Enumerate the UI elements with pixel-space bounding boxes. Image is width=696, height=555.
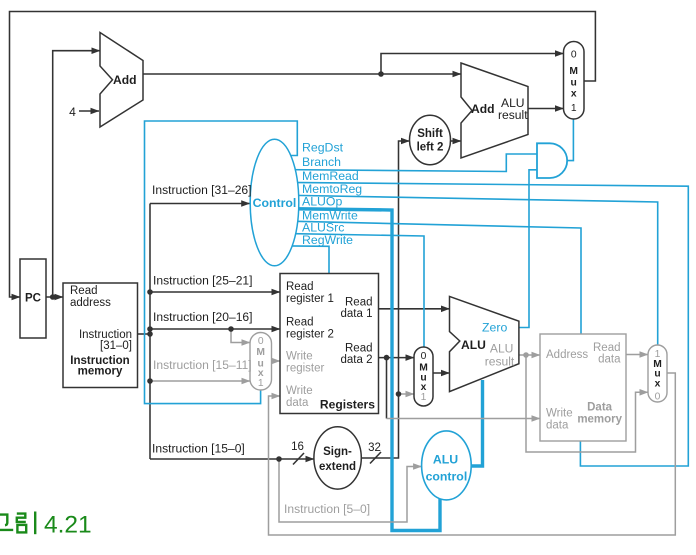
ALU (450, 296, 519, 391)
svg-text:Branch: Branch (302, 155, 341, 169)
svg-text:memory: memory (78, 366, 123, 378)
svg-text:Read: Read (345, 297, 373, 309)
node sign-extend trunk tap (396, 391, 402, 397)
wire data memory Read data to right mux input 1 (626, 354, 648, 356)
wire RegDst control loop to RegDst mux select (145, 121, 298, 404)
svg-text:1: 1 (258, 378, 264, 389)
svg-text:RegWrite: RegWrite (302, 233, 353, 247)
svg-text:4: 4 (69, 105, 76, 119)
svg-text:data 2: data 2 (341, 354, 373, 366)
mux RegDst (gray) (250, 333, 272, 391)
svg-text:register: register (286, 363, 325, 375)
svg-text:Add: Add (471, 102, 495, 116)
svg-text:u: u (571, 78, 577, 89)
svg-text:Zero: Zero (482, 321, 507, 335)
wire instruction trunk vertical (149, 204, 151, 460)
node trunk [20-16] (147, 326, 153, 332)
ellipse Sign-extend (314, 427, 361, 489)
wire Read data 2 to ALUSrc mux input 0 (379, 357, 415, 359)
svg-text:Add: Add (113, 73, 137, 87)
wire ALU control output (thick) to ALU (460, 380, 483, 466)
svg-text:address: address (70, 297, 111, 309)
svg-text:x: x (571, 89, 577, 100)
svg-text:data: data (286, 397, 309, 409)
wire slash 32 (370, 452, 381, 464)
wire right mux output loop to Registers Write data (269, 373, 676, 535)
svg-text:data: data (546, 420, 569, 432)
wire RegDst mux output to Write register (272, 360, 281, 362)
svg-text:0: 0 (655, 392, 661, 403)
svg-text:Registers: Registers (320, 398, 375, 412)
wire PC to Add (PC riser) (53, 51, 100, 297)
svg-text:Instruction [15–11]: Instruction [15–11] (153, 358, 252, 372)
mux top (PCSrc) (564, 42, 585, 120)
svg-text:extend: extend (319, 461, 356, 473)
node trunk [15-11] (147, 378, 153, 384)
svg-text:ALU: ALU (461, 338, 486, 352)
ellipse Control (250, 139, 299, 266)
svg-text:data: data (598, 354, 621, 366)
svg-text:16: 16 (291, 441, 304, 453)
wire constant 4 into Add (79, 110, 99, 112)
svg-text:0: 0 (258, 336, 264, 347)
node trunk instruction feed (147, 331, 153, 337)
wire MemtoReg control to right mux select (274, 195, 658, 345)
svg-text:MemRead: MemRead (302, 169, 359, 183)
wire sign-extend output up to Shift left 2 (361, 141, 410, 458)
svg-text:Read: Read (70, 285, 98, 297)
adder Add (PC+4) (100, 33, 143, 128)
wire Shift left 2 output to branch adder (451, 140, 462, 142)
wire sign-extend tap to ALUSrc mux input 1 (399, 393, 415, 395)
ellipse ALU control (422, 431, 472, 500)
svg-text:Instruction [25–21]: Instruction [25–21] (153, 274, 253, 288)
mux ALUSrc (414, 347, 433, 406)
wire ALUSrc control to ALUSrc mux select (274, 233, 424, 347)
node ALU result junction (gray) (523, 352, 529, 358)
block Registers (280, 274, 379, 414)
wire Instruction [15-11] to RegDst mux input 1 (150, 380, 250, 382)
wire Instruction [31-26] to Control (150, 203, 250, 205)
wire Read data 2 drop toward memory write data (386, 358, 388, 419)
wire Read data 2 into data memory Write data (387, 418, 541, 420)
svg-text:4.21: 4.21 (44, 512, 92, 539)
wire PC+4 from Add to branch adder (143, 73, 461, 75)
svg-text:[31–0]: [31–0] (100, 340, 132, 352)
node PC output junction (50, 294, 56, 300)
wire PC+4 branch to top mux input 0 (381, 54, 564, 75)
wire ALUOp control (thick) to ALU control (274, 209, 440, 531)
wire Zero output of ALU to AND gate input (519, 170, 537, 328)
wire Instruction [20-16] to Read register 2 (150, 328, 280, 330)
adder Add (branch target, ALU result) (461, 63, 528, 158)
svg-text:result: result (498, 108, 528, 122)
svg-text:M: M (569, 66, 578, 77)
ellipse Shift left 2 (410, 115, 451, 164)
svg-text:32: 32 (368, 442, 381, 454)
wire instruction memory output to trunk (138, 333, 151, 335)
svg-text:ALUOp: ALUOp (302, 194, 342, 208)
wire Instruction [15-0] to sign-extend (150, 458, 314, 460)
svg-text:Control: Control (253, 196, 297, 210)
svg-text:Instruction [20–16]: Instruction [20–16] (153, 310, 253, 324)
svg-text:control: control (426, 470, 468, 484)
node [15-0] tap for [5-0] (276, 456, 282, 462)
wire Read data 1 to ALU (379, 308, 450, 310)
wire AND gate output to top mux select (567, 119, 573, 161)
register PC (20, 259, 46, 338)
node [20-16] tap (228, 326, 234, 332)
svg-text:Sign-: Sign- (323, 446, 352, 458)
svg-text:ALU: ALU (433, 453, 458, 467)
wire ALU result to data memory Address (519, 354, 540, 356)
wire Instruction [5-0] to ALU control (279, 459, 422, 522)
block Data memory (gray) (540, 334, 626, 441)
wire Branch control to AND gate input (274, 154, 537, 172)
svg-text:M: M (256, 347, 265, 358)
svg-text:Read: Read (593, 342, 621, 354)
wire Instruction [25-21] to Read register 1 (150, 291, 280, 293)
wire PC feedback from top mux output to PC input (10, 12, 596, 298)
svg-text:Write: Write (286, 385, 313, 397)
svg-text:Instruction [31–26]: Instruction [31–26] (152, 183, 252, 197)
svg-text:register 2: register 2 (286, 329, 334, 341)
caption figure number (green) (0, 512, 35, 535)
svg-text:0: 0 (571, 50, 577, 61)
svg-text:result: result (485, 354, 515, 368)
svg-text:x: x (655, 379, 661, 390)
svg-text:left 2: left 2 (417, 141, 444, 153)
svg-text:Read: Read (345, 343, 373, 355)
block Instruction memory (63, 283, 138, 388)
wire branch adder ALU result to top mux input 1 (528, 108, 564, 110)
node Read data 2 junction (384, 355, 390, 361)
node PC+4 junction (378, 71, 384, 77)
svg-text:PC: PC (25, 293, 41, 305)
wire MemWrite control to data memory write port (274, 221, 581, 334)
wire slash 16 (293, 453, 304, 465)
wire PC to instruction memory Read address (46, 296, 63, 298)
svg-text:RegDst: RegDst (302, 141, 344, 155)
svg-text:Instruction [15–0]: Instruction [15–0] (152, 442, 245, 456)
svg-text:Write: Write (286, 351, 313, 363)
svg-text:Data: Data (587, 402, 613, 414)
svg-text:Shift: Shift (417, 128, 443, 140)
svg-text:register 1: register 1 (286, 293, 334, 305)
svg-text:Read: Read (286, 317, 314, 329)
svg-text:Address: Address (546, 349, 588, 361)
svg-text:Read: Read (286, 281, 314, 293)
node trunk [25-21] (147, 289, 153, 295)
gate AND (branch) (537, 143, 567, 178)
svg-text:data 1: data 1 (341, 308, 373, 320)
svg-text:memory: memory (577, 414, 622, 426)
svg-text:Instruction [5–0]: Instruction [5–0] (284, 502, 370, 516)
svg-text:0: 0 (421, 351, 427, 362)
mux MemtoReg (gray) (648, 345, 667, 402)
wire ALUSrc mux output to ALU (433, 372, 450, 374)
wire Instruction [20-16] tap to RegDst mux input 0 (231, 329, 250, 343)
wire ALU result loop to right mux input 0 (526, 355, 648, 452)
svg-text:1: 1 (571, 103, 577, 114)
wire RegWrite control to Registers (274, 246, 329, 274)
svg-text:1: 1 (421, 392, 427, 403)
wire MemRead control to data memory read port (274, 182, 688, 466)
svg-text:Write: Write (546, 408, 573, 420)
